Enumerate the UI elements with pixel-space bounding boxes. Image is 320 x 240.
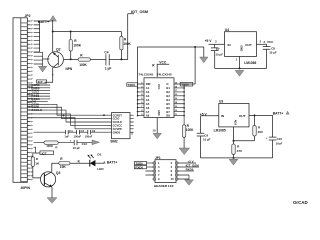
transistor Q3 <box>41 171 61 187</box>
svg-text:D1: D1 <box>97 153 101 157</box>
node base junction dot <box>70 58 72 60</box>
svg-text:200: 200 <box>258 130 263 134</box>
capacitor C8 <box>263 44 277 68</box>
net flag TXD0 (JP1) <box>134 161 153 165</box>
svg-text:TXD0: TXD0 <box>181 83 189 87</box>
svg-text:U4: U4 <box>225 28 229 32</box>
capacitor C4 <box>104 51 111 71</box>
wire JP1 ground pins <box>178 175 189 180</box>
svg-text:IGT_OSM: IGT_OSM <box>131 10 148 14</box>
svg-text:HEADER 1X2: HEADER 1X2 <box>154 184 174 188</box>
svg-text:VCC: VCC <box>159 61 167 65</box>
svg-text:A3: A3 <box>146 94 150 98</box>
wires connector to SIM2 <box>28 104 107 128</box>
svg-text:B2: B2 <box>166 90 170 94</box>
svg-text:B6: B6 <box>166 106 170 110</box>
resistor R4 / VCC flag above IC <box>157 64 169 77</box>
net flag TXD0 (A side) <box>127 83 138 87</box>
wire U3 OUT to BATT+ <box>249 114 273 116</box>
svg-text:VCC: VCC <box>157 84 160 89</box>
svg-text:DIR: DIR <box>146 82 151 86</box>
capacitor C1 <box>64 129 73 138</box>
svg-text:10 µF: 10 µF <box>203 138 211 142</box>
svg-text:100nF: 100nF <box>74 134 82 138</box>
svg-text:C2: C2 <box>81 129 85 133</box>
svg-text:B5: B5 <box>166 102 170 106</box>
ground arrow (U4) <box>235 70 244 76</box>
svg-text:B7: B7 <box>166 110 170 114</box>
wire U4 GND pin <box>239 56 241 68</box>
svg-text:GND: GND <box>157 110 160 116</box>
svg-text:LM1086: LM1086 <box>244 61 256 65</box>
svg-text:CCIO: CCIO <box>113 117 120 121</box>
svg-text:+: + <box>266 136 268 140</box>
net flag IGT (Q3 base) <box>33 147 40 157</box>
svg-text:B8: B8 <box>166 114 170 118</box>
svg-text:100nF: 100nF <box>85 134 93 138</box>
wire GND pin bus <box>34 52 43 66</box>
wire R8 to LED <box>70 162 90 164</box>
svg-text:10: 10 <box>171 177 174 181</box>
svg-text:OrCAD: OrCAD <box>293 200 308 205</box>
svg-text:U3: U3 <box>219 100 223 104</box>
svg-text:BATT+: BATT+ <box>107 161 118 165</box>
node R2 bottom junction <box>120 58 122 60</box>
node SIM bundle junctions <box>63 115 65 117</box>
svg-text:74LCX245: 74LCX245 <box>157 73 172 77</box>
wire SIM GND row <box>34 131 106 133</box>
svg-text:BATT+: BATT+ <box>273 112 284 116</box>
svg-text:74LCX245: 74LCX245 <box>138 73 153 77</box>
ground arrow (Q3) <box>47 198 57 204</box>
svg-text:10uF: 10uF <box>276 142 283 146</box>
svg-text:+5 V: +5 V <box>205 39 213 43</box>
svg-text:RXD0: RXD0 <box>135 165 143 169</box>
header JP1 body <box>155 160 176 183</box>
connector pin cell dividers <box>21 23 28 182</box>
svg-text:LED: LED <box>97 167 104 171</box>
capacitor C13 <box>70 138 87 150</box>
wire Q2 base node <box>43 58 79 60</box>
resistor R7 1K <box>31 157 41 178</box>
IC ground pin 10 <box>156 118 158 134</box>
svg-text:A6: A6 <box>146 106 150 110</box>
wire TXD0 top rail <box>138 47 204 85</box>
wire +5V to IN U4 <box>209 43 225 45</box>
svg-text:A2: A2 <box>146 90 150 94</box>
capacitor C3 <box>85 129 96 138</box>
wire R3 to C4 <box>90 59 106 61</box>
svg-text:CCVCC: CCVCC <box>113 124 123 128</box>
capacitor C9 <box>197 116 211 158</box>
svg-text:A5: A5 <box>146 102 150 106</box>
resistor R1 100K pullup <box>69 31 82 59</box>
svg-text:IGT: IGT <box>42 151 47 155</box>
wire RXD0 flag (JP1) <box>178 170 194 172</box>
svg-text:100K: 100K <box>73 44 81 48</box>
svg-text:B3: B3 <box>166 94 170 98</box>
svg-text:BATT+: BATT+ <box>38 20 49 24</box>
wire Q2 collector <box>52 20 54 53</box>
wire A-side bus <box>138 84 141 116</box>
connector SIM2 body <box>112 113 131 139</box>
wire Q3 emitter <box>51 187 53 198</box>
net flag TXD0 (B side) <box>180 82 193 86</box>
svg-text:1 µF: 1 µF <box>105 67 111 71</box>
capacitor C10 <box>266 115 283 157</box>
off-page arrow right <box>92 140 100 145</box>
ground rail U3 <box>201 157 273 159</box>
IC U4 LM1086 body <box>225 28 257 65</box>
svg-text:10 µF: 10 µF <box>269 50 277 54</box>
svg-text:C1: C1 <box>69 129 73 133</box>
wire BATT+ pin bus vertical <box>34 21 40 52</box>
svg-text:A7: A7 <box>146 110 150 114</box>
svg-text:10K: 10K <box>60 165 67 169</box>
wire Q2 emitter to IGT flag <box>45 67 54 82</box>
svg-text:C4: C4 <box>104 51 108 55</box>
svg-text:A4: A4 <box>146 98 150 102</box>
svg-text:B4: B4 <box>166 98 170 102</box>
svg-text:B1: B1 <box>166 86 170 90</box>
svg-text:10: 10 <box>152 128 156 132</box>
resistor R5 100K pulldown <box>182 124 194 148</box>
node BATT+ rail junction <box>52 31 54 33</box>
LED D1 <box>88 153 105 172</box>
svg-text:Q3: Q3 <box>56 171 61 175</box>
svg-text:O: O <box>166 82 168 86</box>
svg-text:RXD0: RXD0 <box>186 168 194 172</box>
resistor R6 100K <box>44 141 58 150</box>
ground arrow (pulldown) <box>179 148 190 155</box>
svg-text:ADJ: ADJ <box>233 120 237 126</box>
svg-text:100K: 100K <box>79 63 87 67</box>
svg-text:C10: C10 <box>277 137 283 141</box>
resistor R9 200 <box>253 115 263 140</box>
svg-text:C3: C3 <box>92 129 96 133</box>
svg-text:A1: A1 <box>146 86 150 90</box>
svg-text:C7: C7 <box>216 47 220 51</box>
ground arrow (U3) <box>229 159 238 165</box>
wire C4 to IGT_OSM node <box>109 59 128 61</box>
ground arrow (JP1) <box>185 180 194 185</box>
wire +5V flag (JP1) <box>178 162 196 164</box>
wire IGT_OSM vertical <box>128 14 134 60</box>
transistor Q2 <box>48 48 73 72</box>
svg-text:40PIN: 40PIN <box>21 186 31 190</box>
resistor R2 100K pullup IGT_OSM <box>120 32 132 60</box>
svg-text:470: 470 <box>237 149 242 153</box>
power symbol BATT+ (top) <box>38 16 57 25</box>
resistor R10 470 <box>232 141 242 158</box>
net flag RXD0 (JP1) <box>134 165 153 169</box>
ground arrow (IC) <box>153 133 161 139</box>
svg-text:10 µF: 10 µF <box>73 146 81 150</box>
capacitor C7 <box>211 44 223 68</box>
resistor R3 100K series <box>78 53 90 66</box>
connector JP2 body <box>13 18 27 183</box>
ground rail U4 <box>215 67 267 69</box>
svg-text:NPN: NPN <box>66 67 73 71</box>
wire B-side bus <box>178 84 196 125</box>
svg-text:10 µF: 10 µF <box>215 53 223 57</box>
IC pin stubs <box>141 84 178 116</box>
net flag IGT (emitter) <box>37 80 47 84</box>
wire ADJ node <box>234 127 255 141</box>
wire BATT+ rail to pullups <box>53 31 122 33</box>
wire U4 OUT <box>257 43 267 45</box>
svg-text:GND3: GND3 <box>113 130 121 134</box>
svg-text:100K: 100K <box>46 144 54 148</box>
svg-text:A8: A8 <box>146 114 150 118</box>
svg-text:100K: 100K <box>186 128 194 132</box>
IC U1 74LCX245 body <box>144 78 174 118</box>
svg-text:OUT: OUT <box>239 114 246 118</box>
svg-text:LM1085: LM1085 <box>214 129 226 133</box>
svg-text:SIM2: SIM2 <box>110 140 118 144</box>
header stubs pins 5 7 <box>146 171 154 175</box>
svg-text:OUT: OUT <box>245 43 252 47</box>
resistor R8 10K <box>59 157 70 169</box>
svg-text:JP2: JP2 <box>25 14 31 18</box>
connector pin stubs <box>27 21 30 180</box>
wire +5V to IN U3 <box>201 115 219 117</box>
capacitor C2 <box>74 129 85 138</box>
svg-text:TXD0: TXD0 <box>128 83 136 87</box>
SIM2 pin stubs <box>106 115 134 132</box>
connector pin arrowheads <box>31 20 34 180</box>
svg-text:3_VCC: 3_VCC <box>263 40 274 44</box>
svg-text:CCRST: CCRST <box>113 113 123 117</box>
power arrow down (rail end) <box>200 47 208 63</box>
svg-text:GND: GND <box>240 45 244 51</box>
svg-text:C13: C13 <box>82 142 88 146</box>
wire Q3 collector to R8 <box>52 163 59 172</box>
svg-text:CCVPP: CCVPP <box>113 127 122 131</box>
wire VCHG row <box>34 142 92 144</box>
wire IGT_OSM flag (JP1) <box>178 166 199 168</box>
svg-text:Q2: Q2 <box>56 48 61 52</box>
ground arrow (connector) <box>38 66 46 72</box>
svg-text:1nF: 1nF <box>64 134 69 138</box>
IC U3 LM1085 body <box>214 100 249 133</box>
svg-text:CCCLK: CCCLK <box>113 120 122 124</box>
